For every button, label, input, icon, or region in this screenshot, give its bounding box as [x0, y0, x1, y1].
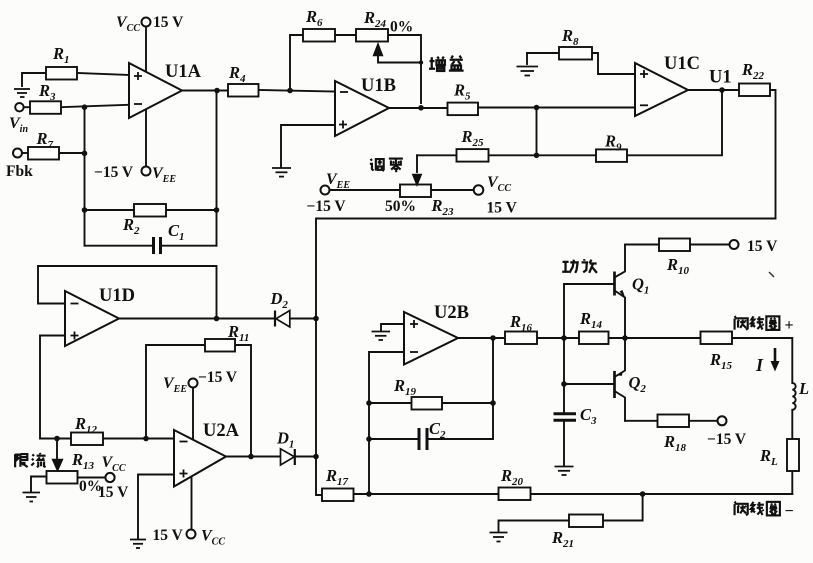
svg-text:15 V: 15 V — [487, 200, 518, 217]
svg-text:+: + — [785, 317, 794, 334]
svg-text:−15 V: −15 V — [94, 164, 134, 181]
svg-text:U1D: U1D — [99, 286, 135, 306]
svg-text:I: I — [755, 355, 764, 375]
svg-text:0%: 0% — [390, 19, 413, 36]
svg-text:15 V: 15 V — [153, 14, 184, 31]
svg-text:U1B: U1B — [361, 76, 396, 96]
svg-text:−15 V: −15 V — [198, 369, 238, 386]
svg-text:15 V: 15 V — [747, 238, 778, 255]
svg-text:50%: 50% — [385, 198, 416, 215]
svg-text:U1C: U1C — [664, 54, 700, 74]
svg-text:−15 V: −15 V — [707, 431, 747, 448]
svg-text:15 V: 15 V — [153, 527, 184, 544]
svg-text:U2A: U2A — [203, 421, 240, 441]
svg-text:−15 V: −15 V — [307, 198, 347, 215]
svg-text:U2B: U2B — [434, 303, 469, 323]
svg-text:U1: U1 — [709, 68, 732, 88]
svg-text:−: − — [785, 503, 794, 520]
svg-text:U1A: U1A — [165, 62, 202, 82]
svg-text:Fbk: Fbk — [6, 163, 33, 180]
svg-text:L: L — [798, 379, 809, 398]
svg-text:15 V: 15 V — [98, 484, 129, 501]
